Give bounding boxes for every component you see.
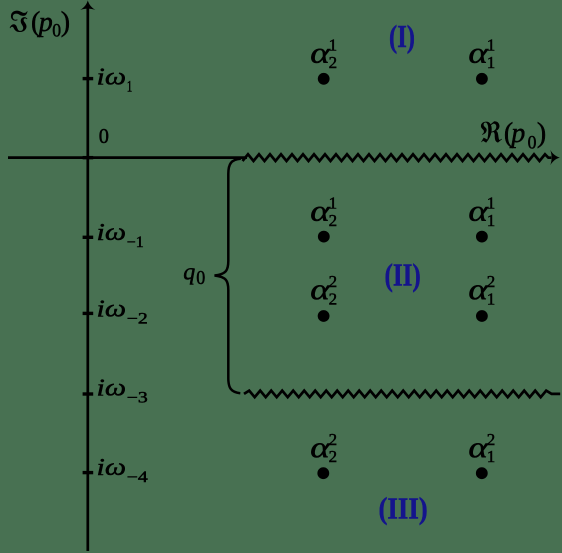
svg-text:iω: iω [97,374,127,401]
svg-text:1: 1 [329,193,338,212]
svg-text:1: 1 [329,35,338,54]
svg-text:2: 2 [329,447,338,466]
svg-text:0: 0 [99,124,109,148]
svg-text:1: 1 [127,79,133,96]
svg-text:1: 1 [487,289,496,308]
svg-text:2: 2 [487,272,496,291]
svg-text:−3: −3 [127,390,148,407]
svg-text:iω: iω [97,295,127,322]
svg-text:2: 2 [487,430,496,449]
svg-text:2: 2 [329,53,338,72]
svg-text:2: 2 [329,289,338,308]
svg-text:1: 1 [487,53,496,72]
svg-text:p: p [37,7,53,38]
svg-text:q: q [183,260,195,286]
svg-text:): ) [61,7,70,38]
svg-text:−4: −4 [127,469,148,486]
svg-text:p: p [509,118,525,149]
svg-text:1: 1 [487,211,496,230]
svg-text:iω: iω [97,219,127,246]
svg-text:0: 0 [528,133,537,154]
svg-text:−2: −2 [127,311,148,328]
svg-text:−1: −1 [127,234,144,251]
svg-text:1: 1 [487,193,496,212]
svg-text:iω: iω [97,64,127,91]
svg-text:0: 0 [196,267,205,289]
svg-text:(II): (II) [385,257,421,292]
svg-text:0: 0 [52,20,61,41]
svg-text:2: 2 [329,211,338,230]
svg-text:(III): (III) [379,490,428,525]
svg-text:): ) [537,118,546,149]
svg-text:1: 1 [487,35,496,54]
svg-text:1: 1 [487,447,496,466]
svg-text:2: 2 [329,272,338,291]
svg-text:(I): (I) [389,19,415,54]
svg-text:2: 2 [329,430,338,449]
svg-text:iω: iω [97,454,127,481]
